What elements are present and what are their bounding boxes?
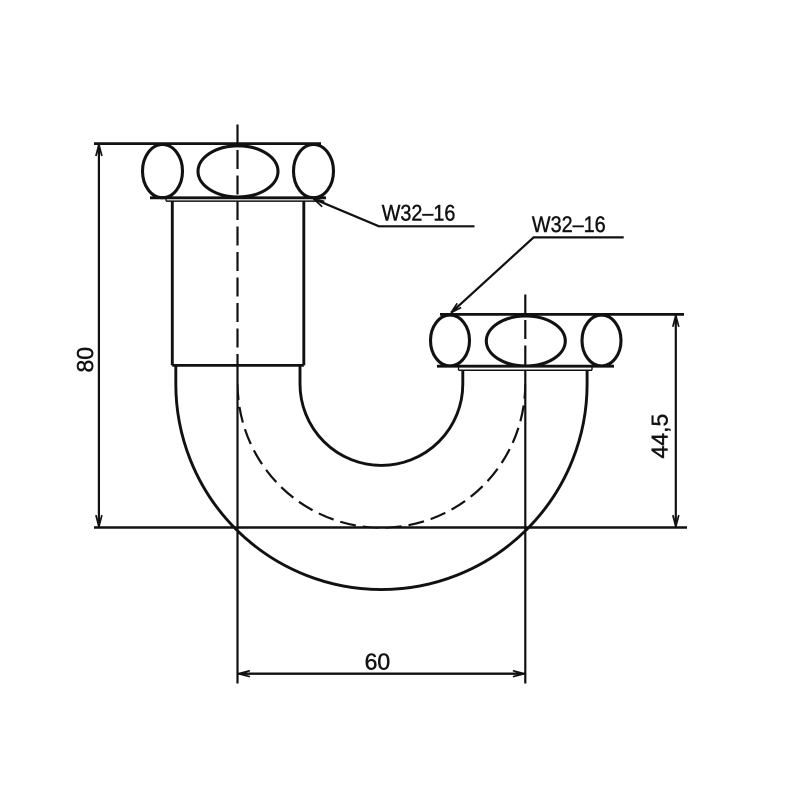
svg-text:60: 60 bbox=[365, 649, 391, 675]
svg-text:W32–16: W32–16 bbox=[532, 212, 606, 237]
svg-text:44,5: 44,5 bbox=[646, 414, 672, 459]
svg-text:W32–16: W32–16 bbox=[382, 200, 456, 225]
svg-text:80: 80 bbox=[72, 347, 98, 373]
